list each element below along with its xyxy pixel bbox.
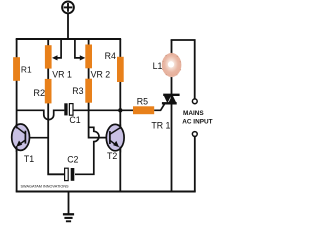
svg-text:R4: R4 — [105, 51, 116, 61]
transistor T2 — [106, 124, 124, 161]
wire C2 branch from R3 lead with hop over T2 base wire — [75, 127, 99, 174]
resistor R3 — [85, 79, 92, 103]
resistor R2 — [45, 79, 52, 104]
svg-text:T1: T1 — [24, 154, 34, 164]
svg-text:SWAGATAM INNOVATIONS: SWAGATAM INNOVATIONS — [21, 185, 70, 189]
wire R4/T2 rail — [119, 39, 121, 192]
resistor R5 — [133, 106, 154, 114]
wire lamp/triac branch — [171, 40, 173, 192]
capacitor C2 — [65, 168, 69, 180]
wire supply stem — [67, 13, 69, 39]
lamp L1 — [153, 53, 182, 77]
node junction dot — [118, 108, 122, 112]
svg-text:TR 1: TR 1 — [151, 121, 170, 131]
wire left rail R1/T1 — [16, 39, 18, 192]
svg-text:VR 1: VR 1 — [52, 70, 72, 80]
wire bottom rail — [16, 191, 196, 193]
svg-text:C1: C1 — [69, 115, 80, 125]
wire T1 base — [28, 137, 48, 139]
wire VR1/R2 rail down to C2 — [48, 39, 64, 174]
wire lower terminal to rail — [194, 137, 196, 192]
mains terminal lower — [192, 132, 197, 137]
wire top bus — [16, 38, 121, 40]
supply positive symbol — [62, 2, 74, 14]
svg-text:AC INPUT: AC INPUT — [182, 119, 212, 126]
wire VR1 wiper — [55, 39, 61, 58]
triac TR1 — [151, 95, 179, 131]
svg-text:R3: R3 — [72, 86, 83, 96]
svg-text:VR 2: VR 2 — [91, 70, 111, 80]
potentiometer VR2 — [85, 45, 92, 69]
svg-text:R1: R1 — [21, 65, 32, 75]
resistor R1 — [13, 57, 20, 81]
svg-text:T2: T2 — [107, 151, 117, 161]
resistor R4 — [117, 57, 124, 82]
ground — [63, 192, 74, 222]
svg-text:MAINS: MAINS — [183, 110, 204, 117]
svg-text:R5: R5 — [137, 97, 148, 107]
mains terminal upper — [192, 99, 197, 104]
transistor T1 — [12, 124, 35, 164]
capacitor C1 — [64, 103, 67, 115]
potentiometer VR1 — [45, 45, 52, 68]
wire C1 to R5 — [73, 109, 133, 111]
wire collector rail to C1 with hop over R2 lead — [17, 110, 65, 119]
svg-text:C2: C2 — [67, 155, 78, 165]
wire VR2/R3 rail to T2 base — [89, 39, 107, 138]
svg-text:L1: L1 — [153, 61, 163, 71]
svg-text:R2: R2 — [33, 88, 45, 98]
wire lamp top to mains — [171, 40, 195, 99]
wire VR2 wiper — [75, 39, 81, 58]
wire R5 to triac gate — [154, 103, 165, 110]
